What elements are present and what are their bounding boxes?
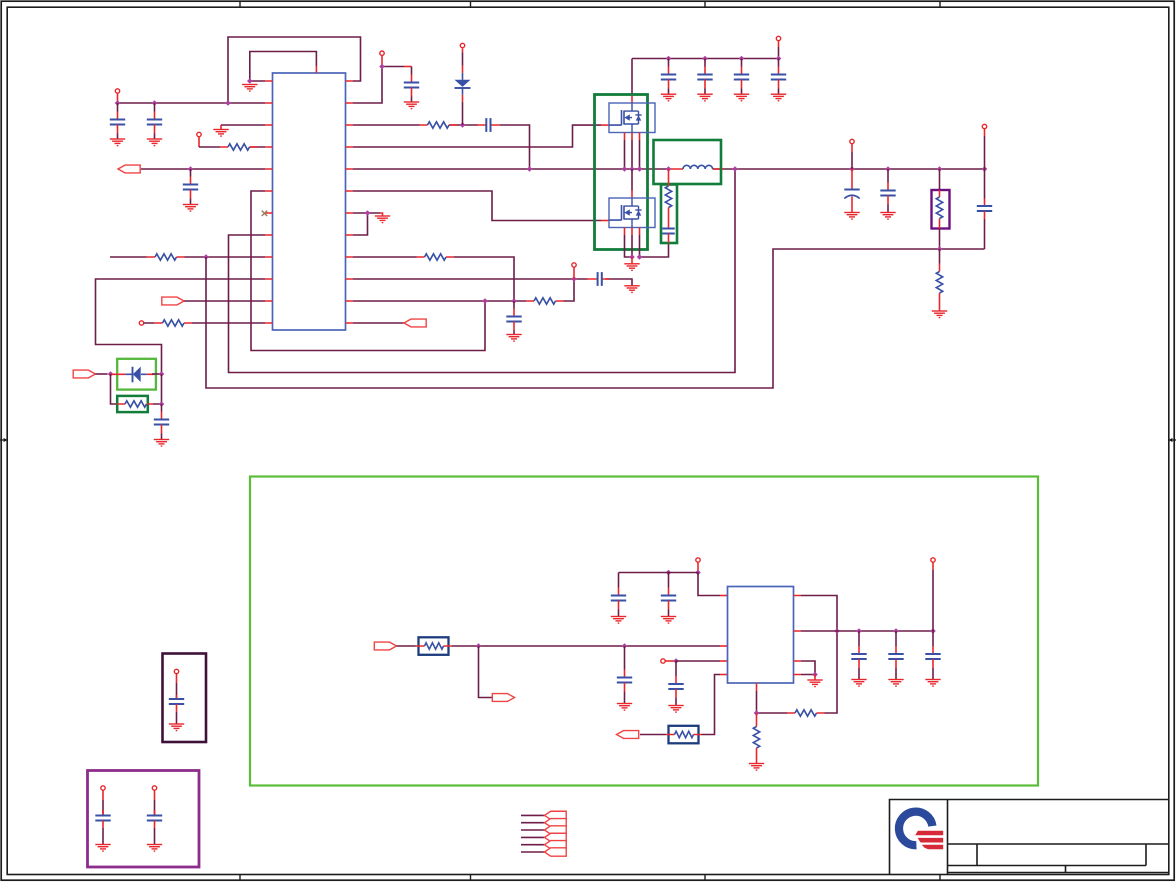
- junction: [673, 658, 679, 664]
- junction: [812, 672, 818, 678]
- wire row8 feedback to VOUT: [229, 169, 736, 373]
- ground: [375, 216, 390, 223]
- wire AGND inner loop: [250, 52, 317, 82]
- wire feedforward cap to FB line: [984, 219, 986, 249]
- junction: [856, 628, 862, 634]
- resistor R8 sense: [665, 186, 671, 208]
- ground: [844, 213, 859, 220]
- wire VCC rail: [118, 102, 266, 104]
- green box around inductor: [654, 140, 722, 184]
- wire boot cap to SW: [500, 125, 530, 169]
- U2 right pin stubs: [794, 596, 802, 675]
- wire LDO output rail: [801, 630, 933, 632]
- wire LDO input rail: [452, 645, 720, 647]
- diode D2: [455, 73, 471, 95]
- Q2 source stubs: [625, 228, 640, 236]
- ground: [147, 139, 162, 146]
- junction: [108, 371, 114, 377]
- junction: [776, 56, 782, 62]
- junction: [754, 710, 760, 716]
- junction: [365, 210, 371, 216]
- junction: [666, 166, 672, 172]
- wire comp row: [353, 257, 514, 301]
- connector tag 2: [545, 819, 567, 827]
- junction: [622, 166, 628, 172]
- capacitor C7: [506, 301, 521, 335]
- junction: [885, 166, 891, 172]
- wire row11 rail: [353, 279, 574, 301]
- terminal VIN: [776, 36, 780, 40]
- capacitor C8: [598, 272, 602, 286]
- ground: [807, 680, 822, 687]
- junction: [849, 166, 855, 172]
- capacitor C9: [661, 59, 676, 95]
- capacitor C13 sense: [662, 229, 675, 234]
- wire diode to junction: [152, 373, 162, 375]
- capacitor C24: [169, 695, 184, 712]
- port tag row11: [162, 297, 184, 305]
- junction: [476, 643, 482, 649]
- terminal LDO VIN: [696, 558, 700, 562]
- terminal lead: [665, 660, 676, 662]
- input port tag LDO: [374, 642, 396, 650]
- inductor L1: [683, 165, 713, 169]
- junction: [937, 166, 943, 172]
- wire LDO top rail: [619, 572, 699, 574]
- capacitor C23: [925, 631, 940, 680]
- resistor R12 feedback bottom: [753, 727, 759, 749]
- capacitor C20: [668, 661, 683, 706]
- wire tag to bead FB2: [640, 734, 666, 736]
- dark purple box cap cell: [163, 654, 207, 743]
- boot cap leads: [477, 124, 500, 126]
- ground: [183, 205, 198, 212]
- n-mosfet Q1 high-side: [609, 103, 655, 133]
- capacitor C26: [147, 810, 162, 828]
- wire terminal down: [198, 137, 200, 147]
- wire tag to bead: [397, 645, 416, 647]
- main controller IC U1: [273, 73, 346, 330]
- terminal cell1: [174, 669, 178, 673]
- wire HS gate: [353, 125, 601, 147]
- port tag LDO branch: [492, 694, 514, 702]
- U2 bottom pin stub: [756, 683, 758, 691]
- wire terminal VOUT down: [984, 129, 986, 136]
- capacitor C5: [404, 67, 419, 103]
- capacitor C3: [183, 169, 198, 205]
- junction: [732, 166, 738, 172]
- capacitor C11: [734, 59, 749, 95]
- junction: [637, 166, 643, 172]
- connector tag 3: [545, 826, 567, 834]
- resistor R2: [155, 254, 177, 260]
- wires to connector tags: [521, 815, 545, 852]
- capacitor C17: [617, 646, 632, 704]
- ground: [661, 617, 676, 624]
- capacitor C6 boot: [486, 118, 490, 132]
- terminal BOOT supply: [460, 43, 464, 47]
- company logo: [899, 812, 943, 850]
- ground: [734, 94, 749, 101]
- ground: [771, 94, 786, 101]
- wire row6 wrap-around: [251, 191, 485, 351]
- ground: [404, 102, 419, 109]
- U1 top pin stub: [315, 66, 317, 73]
- navy box ferrite bead FB1: [419, 637, 449, 655]
- capacitor C2: [147, 103, 162, 139]
- wire to resistor R1: [199, 146, 265, 148]
- purple box around divider resistor: [932, 190, 950, 229]
- junction: [203, 254, 209, 260]
- junction: [637, 254, 643, 260]
- junction: [460, 122, 466, 128]
- diode D2 wire: [462, 48, 464, 52]
- green box around LDO circuit: [250, 477, 1038, 786]
- power ground stem: [631, 257, 633, 264]
- terminal row10: [572, 263, 576, 267]
- terminal VIN stem: [778, 41, 780, 47]
- capacitor C18: [611, 573, 626, 617]
- resistor R9 divider top: [936, 197, 942, 219]
- wire VCC top loop: [228, 37, 361, 103]
- resistor R5: [428, 122, 450, 128]
- terminal VOUT: [982, 124, 986, 128]
- wire LS gate: [353, 191, 601, 221]
- connector tag 4: [545, 833, 567, 841]
- wire VIN to Q1 drain: [631, 59, 633, 96]
- ground: [611, 617, 626, 624]
- wire rows 7-8 ground tie: [353, 213, 380, 235]
- wire U2 ground pins: [801, 661, 815, 675]
- terminal row12: [139, 321, 143, 325]
- ground: [242, 85, 257, 92]
- ground: [624, 286, 639, 293]
- wire row10 right: [353, 279, 632, 286]
- terminal cell2a: [101, 786, 105, 790]
- connector tag 5: [545, 841, 567, 849]
- junction: [159, 401, 165, 407]
- wire row3 to ground: [221, 124, 265, 126]
- capacitor C10: [697, 59, 712, 95]
- junction: [188, 166, 194, 172]
- wire LDO IN route: [698, 573, 720, 596]
- junction: [482, 298, 488, 304]
- terminal stem: [381, 55, 383, 66]
- wire FB long route: [206, 249, 985, 388]
- terminal VCC2: [380, 51, 384, 55]
- wire row2 right: [353, 67, 404, 104]
- junction: [695, 570, 701, 576]
- resistor R1: [228, 144, 250, 150]
- resistor R7: [534, 298, 556, 304]
- ground: [624, 264, 639, 271]
- ground: [661, 94, 676, 101]
- terminal VCC: [115, 89, 119, 93]
- Q1 source stubs: [625, 133, 640, 141]
- dark green box around resistor R4: [117, 396, 148, 412]
- junction: [379, 64, 385, 70]
- terminal stem: [697, 562, 699, 572]
- ground: [147, 845, 162, 852]
- wire divider mid: [939, 229, 941, 250]
- wire U2 FB node: [756, 691, 758, 713]
- junction: [739, 56, 745, 62]
- wire tag to U1: [184, 300, 265, 302]
- purple box dual cap cell: [88, 771, 200, 868]
- wire bead FB2 to U2: [702, 675, 721, 735]
- green box around sense network: [661, 185, 677, 244]
- sense resistor lead: [668, 169, 670, 186]
- diode D1 leads: [111, 373, 155, 375]
- wire BOOT row: [353, 124, 478, 126]
- wires Q2 source to ground row: [625, 235, 669, 257]
- ground: [888, 680, 903, 687]
- capacitor C19: [661, 573, 676, 617]
- wire branch to tag: [479, 646, 493, 698]
- wire EN to U2: [676, 660, 720, 662]
- ferrite bead FB1 element: [425, 643, 444, 649]
- wire row10 to clamp network: [96, 279, 266, 374]
- ground: [95, 845, 110, 852]
- junction: [666, 56, 672, 62]
- divider bottom leads: [939, 249, 941, 264]
- capacitor C12: [771, 59, 786, 95]
- ground: [154, 440, 169, 447]
- junction: [893, 628, 899, 634]
- ground: [932, 311, 947, 318]
- ground: [851, 680, 866, 687]
- wire terminal to resistor: [144, 322, 265, 324]
- cell2b leads: [154, 790, 156, 800]
- input port tag clamp: [73, 370, 95, 378]
- junction: [571, 276, 577, 282]
- cell2a leads: [102, 790, 104, 800]
- ground: [169, 724, 184, 731]
- ground: [213, 130, 228, 137]
- junction: [247, 78, 253, 84]
- capacitor C21: [851, 631, 866, 680]
- resistor R11 feedback top: [795, 710, 817, 716]
- wire parallel branch: [111, 374, 118, 404]
- wire terminal to rail: [851, 144, 853, 152]
- terminal cell2b: [152, 786, 156, 790]
- wire SW-VOUT rail: [353, 168, 985, 170]
- port tag row12 right: [404, 319, 426, 327]
- wire SW to Q2 drain: [631, 169, 633, 191]
- U1 right pin stubs: [346, 81, 354, 323]
- ferrite bead FB2 element: [675, 731, 694, 737]
- LDO IC U2: [728, 587, 794, 684]
- junction: [159, 371, 165, 377]
- junction: [225, 100, 231, 106]
- capacitor C16 feedforward: [977, 206, 992, 211]
- capacitor C4: [154, 404, 169, 440]
- terminal LDO EN: [661, 659, 665, 663]
- connector tag 1: [545, 811, 567, 819]
- port tag LDO adj: [617, 731, 639, 739]
- feedforward cap leads: [984, 169, 986, 199]
- junction: [629, 254, 635, 260]
- junction: [152, 100, 158, 106]
- polarized cap lead: [851, 169, 853, 190]
- n-mosfet Q2 low-side: [609, 198, 655, 228]
- wire to divider resistor: [939, 169, 941, 190]
- capacitor C1: [110, 103, 125, 139]
- input port tag row5: [118, 165, 140, 173]
- junction: [527, 166, 533, 172]
- ground stem: [220, 125, 222, 130]
- resistor R6: [425, 254, 447, 260]
- terminal EN: [197, 132, 201, 136]
- terminal VOUT sense: [850, 139, 854, 143]
- junction: [937, 246, 943, 252]
- polarized cap bottom lead: [851, 197, 853, 213]
- wire diode to BOOT junction: [462, 102, 464, 125]
- ground: [668, 706, 683, 713]
- junction: [930, 628, 936, 634]
- junction: [511, 298, 517, 304]
- wire row9 with resistor: [110, 256, 265, 258]
- wire tag to junction: [95, 373, 107, 375]
- polarized capacitor C14: [844, 190, 859, 199]
- ground: [925, 680, 940, 687]
- terminal LDO VOUT: [931, 558, 935, 562]
- no-connect X: [262, 211, 268, 216]
- junction: [629, 166, 635, 172]
- green box around diode D1: [117, 359, 156, 390]
- navy box ferrite bead FB2: [669, 726, 699, 744]
- wire U2 OUT route: [757, 596, 838, 714]
- capacitor C22: [888, 631, 903, 680]
- green box around FETs: [595, 95, 648, 250]
- resistor R10 divider bottom: [936, 272, 942, 294]
- ground: [110, 139, 125, 146]
- ground: [506, 335, 521, 342]
- wire tag to U1: [141, 168, 265, 170]
- junction: [834, 628, 840, 634]
- junction: [702, 56, 708, 62]
- wire row12 to tag: [353, 322, 404, 324]
- connector tag 6: [545, 848, 567, 856]
- wire VIN rail: [632, 58, 779, 60]
- wire terminal to VCC rail: [117, 93, 119, 103]
- resistor R4: [125, 401, 147, 407]
- junction: [982, 166, 988, 172]
- ground: [617, 704, 632, 711]
- ground: [697, 94, 712, 101]
- junction: [115, 100, 121, 106]
- junction: [666, 570, 672, 576]
- diode D1: [125, 367, 147, 383]
- resistor R3: [163, 320, 185, 326]
- ground: [880, 213, 895, 220]
- wire terminal to rail: [932, 562, 934, 570]
- cell1 cap leads: [176, 674, 178, 683]
- wires Q1 source to SW: [625, 140, 640, 169]
- capacitor C15: [880, 169, 895, 213]
- junction: [622, 643, 628, 649]
- capacitor C25: [95, 810, 110, 828]
- wire resistor to junction: [153, 374, 162, 404]
- ground: [749, 764, 764, 771]
- sense network bottom lead: [668, 234, 670, 244]
- U1 left pin stubs: [265, 81, 273, 323]
